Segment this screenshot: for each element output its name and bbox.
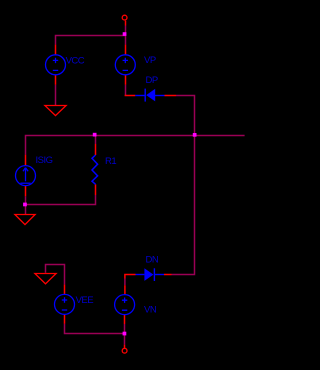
- svg-text:VP: VP: [144, 55, 156, 66]
- svg-text:VN: VN: [144, 305, 157, 316]
- svg-text:ISIG: ISIG: [36, 155, 53, 166]
- svg-text:DN: DN: [146, 255, 159, 266]
- svg-text:VCC: VCC: [66, 56, 85, 67]
- svg-text:DP: DP: [146, 75, 158, 86]
- svg-text:R1: R1: [105, 156, 116, 167]
- svg-text:VEE: VEE: [76, 295, 94, 306]
